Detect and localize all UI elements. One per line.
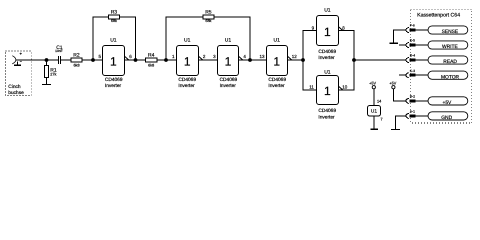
svg-text:R3: R3 bbox=[111, 9, 118, 15]
wire gate D output to node F bbox=[288, 59, 304, 61]
svg-text:14: 14 bbox=[377, 100, 381, 104]
op-amp U1 gate F box bbox=[317, 76, 339, 105]
svg-text:U1: U1 bbox=[184, 38, 191, 44]
svg-text:Inverter: Inverter bbox=[178, 83, 195, 89]
op-amp U1 gate B box bbox=[177, 46, 199, 76]
wire gate E output to node G bbox=[339, 31, 355, 61]
svg-text:1: 1 bbox=[184, 55, 191, 69]
op-amp U1 gate D box bbox=[267, 46, 288, 76]
node B junction bbox=[91, 58, 95, 62]
wire node B up to R3 bbox=[93, 17, 108, 60]
node D junction bbox=[164, 58, 168, 62]
connector X1 cinch jack symbol bbox=[12, 56, 16, 64]
ground under cinch bbox=[14, 64, 21, 66]
svg-text:Kassettenport C64: Kassettenport C64 bbox=[417, 12, 460, 18]
wire R5 to node E bbox=[214, 17, 250, 60]
pin E-5 WRITE stub bbox=[399, 41, 468, 49]
svg-text:U1: U1 bbox=[324, 8, 331, 14]
svg-text:27k: 27k bbox=[50, 73, 56, 77]
svg-text:+5V: +5V bbox=[389, 82, 396, 86]
ic U1 power box bbox=[368, 106, 381, 117]
resistor R5 bbox=[203, 15, 214, 19]
pin name labels bbox=[410, 24, 415, 114]
wire +5V to U1 pin 14 bbox=[373, 89, 375, 106]
wire gate C output to node E bbox=[239, 59, 267, 61]
ground under SENSE bbox=[389, 42, 398, 44]
ground under A-1 bbox=[391, 129, 400, 131]
svg-text:CD4069: CD4069 bbox=[318, 49, 336, 55]
svg-text:6k8: 6k8 bbox=[73, 63, 79, 67]
svg-text:MOTOR: MOTOR bbox=[441, 74, 460, 80]
svg-text:6k8: 6k8 bbox=[148, 63, 154, 67]
svg-text:Inverter: Inverter bbox=[220, 83, 237, 89]
wire R1 to ground bbox=[46, 77, 48, 84]
svg-text:CD4069: CD4069 bbox=[220, 77, 238, 83]
capacitor C1 bbox=[59, 56, 61, 64]
svg-text:1: 1 bbox=[273, 55, 280, 69]
svg-text:CD4069: CD4069 bbox=[318, 108, 336, 114]
svg-text:1: 1 bbox=[225, 55, 232, 69]
node A junction bbox=[45, 58, 49, 62]
wire node A to R1 bbox=[46, 60, 48, 65]
svg-text:68k: 68k bbox=[111, 19, 117, 23]
ground under U1 bbox=[370, 128, 378, 130]
svg-text:Inverter: Inverter bbox=[105, 83, 122, 89]
wire gate A output to node C bbox=[125, 59, 146, 61]
svg-text:WRITE: WRITE bbox=[442, 44, 458, 50]
wire gate B to gate C bbox=[199, 59, 218, 61]
svg-text:10: 10 bbox=[342, 84, 348, 89]
svg-text:Inverter: Inverter bbox=[268, 83, 285, 89]
svg-text:CD4069: CD4069 bbox=[105, 77, 123, 83]
svg-text:F-6: F-6 bbox=[410, 24, 415, 28]
svg-text:CD4069: CD4069 bbox=[268, 77, 286, 83]
svg-text:SENSE: SENSE bbox=[442, 29, 459, 35]
wire gate F output to node G bbox=[339, 60, 355, 90]
wire U1 pin 7 to ground bbox=[373, 116, 375, 129]
gate A output wedge bbox=[125, 56, 129, 60]
svg-text:CD4069: CD4069 bbox=[178, 77, 196, 83]
svg-text:13: 13 bbox=[259, 54, 265, 59]
connector X1 Cinch buchse dashed box bbox=[6, 51, 32, 96]
wire A-1 pin to ground bbox=[396, 116, 407, 129]
svg-text:+5V: +5V bbox=[369, 82, 376, 86]
svg-text:GND: GND bbox=[441, 115, 452, 121]
wire C1 to R2 bbox=[61, 59, 71, 61]
supply +5V symbol for U1 bbox=[372, 86, 375, 89]
svg-text:buchse: buchse bbox=[8, 90, 24, 96]
node F junction bbox=[301, 58, 305, 62]
svg-text:READ: READ bbox=[443, 59, 457, 65]
svg-text:11: 11 bbox=[309, 84, 314, 89]
plus mark bbox=[20, 53, 22, 55]
gate E output wedge bbox=[339, 27, 343, 31]
pin A-1 GND bbox=[406, 112, 468, 120]
svg-text:68k: 68k bbox=[205, 19, 211, 23]
svg-text:+5V: +5V bbox=[442, 100, 452, 106]
wire SENSE pin to ground bbox=[394, 30, 407, 43]
svg-text:U1: U1 bbox=[371, 108, 377, 114]
svg-text:12: 12 bbox=[292, 54, 298, 59]
svg-text:R2: R2 bbox=[73, 52, 80, 58]
svg-text:Inverter: Inverter bbox=[318, 55, 335, 61]
gate D output wedge bbox=[288, 56, 292, 60]
wire node D up to R5 bbox=[166, 17, 203, 60]
wire R2 to node B bbox=[82, 59, 102, 61]
svg-text:R4: R4 bbox=[148, 52, 155, 58]
node G junction bbox=[352, 58, 356, 62]
op-amp U1 gate A box bbox=[103, 46, 125, 76]
svg-text:B-2: B-2 bbox=[410, 95, 415, 99]
node E junction bbox=[248, 58, 252, 62]
resistor R2 bbox=[71, 58, 82, 62]
supply +5V symbol for connector bbox=[392, 86, 395, 89]
resistor R4 bbox=[145, 58, 157, 62]
resistor R1 bbox=[45, 65, 49, 77]
pin F-6 SENSE bbox=[406, 26, 468, 34]
svg-text:U1: U1 bbox=[324, 69, 331, 75]
minus mark bbox=[20, 60, 22, 62]
wire node F up to gate E input bbox=[303, 31, 317, 61]
wire node A to C1 bbox=[47, 59, 59, 61]
wire node F down to gate F input bbox=[303, 60, 317, 90]
svg-text:D-4: D-4 bbox=[410, 54, 415, 58]
pin signal labels bbox=[441, 29, 460, 121]
connector SV1 Kassettenport dashed box bbox=[411, 9, 472, 123]
svg-text:1: 1 bbox=[324, 25, 331, 39]
svg-text:1: 1 bbox=[324, 84, 331, 98]
gate F output wedge bbox=[339, 86, 343, 90]
wire cinch shield to ground bbox=[17, 62, 19, 65]
svg-text:E-5: E-5 bbox=[410, 39, 415, 43]
svg-text:U1: U1 bbox=[225, 38, 232, 44]
wire R4 to gate B bbox=[157, 59, 176, 61]
svg-text:1: 1 bbox=[110, 55, 117, 69]
pin D-4 READ bbox=[406, 56, 468, 64]
svg-text:7: 7 bbox=[381, 118, 383, 122]
svg-text:Cinch: Cinch bbox=[8, 84, 21, 90]
op-amp U1 gate C box bbox=[218, 46, 239, 76]
node C junction bbox=[134, 58, 138, 62]
pin C-3 MOTOR stub bbox=[399, 71, 468, 79]
gate B output wedge bbox=[199, 56, 203, 60]
svg-text:Inverter: Inverter bbox=[318, 114, 335, 120]
wire R3 to node C bbox=[120, 17, 136, 60]
pin B-2 +5V bbox=[406, 97, 468, 105]
gate C output wedge bbox=[239, 56, 243, 60]
ground under R1 bbox=[42, 84, 51, 86]
svg-text:10nF: 10nF bbox=[55, 49, 63, 53]
svg-text:U1: U1 bbox=[110, 38, 117, 44]
wire node G to READ pin bbox=[354, 59, 406, 61]
wire cinch to node A bbox=[16, 59, 47, 61]
svg-text:U1: U1 bbox=[273, 38, 280, 44]
resistor R3 bbox=[108, 15, 119, 19]
svg-text:R5: R5 bbox=[205, 9, 212, 15]
wire +5V to B-2 pin bbox=[393, 89, 406, 101]
svg-text:C-3: C-3 bbox=[410, 69, 415, 73]
svg-text:A-1: A-1 bbox=[410, 110, 415, 114]
op-amp U1 gate E box bbox=[317, 16, 339, 46]
